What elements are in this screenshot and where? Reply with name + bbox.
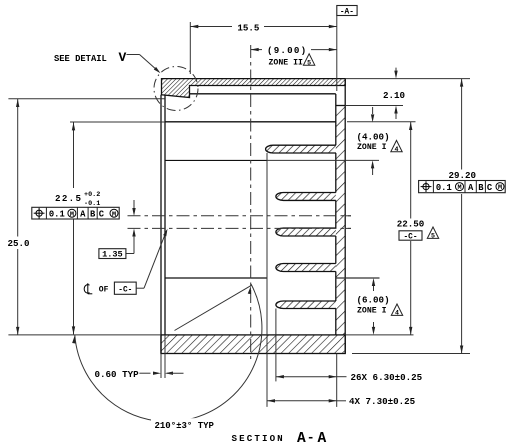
svg-text:(4.00): (4.00): [357, 131, 390, 142]
svg-text:(6.00): (6.00): [357, 295, 390, 306]
svg-text:5: 5: [431, 233, 435, 240]
svg-text:-: -: [307, 430, 315, 445]
svg-text:2.10: 2.10: [383, 90, 405, 101]
svg-text:B: B: [90, 210, 96, 220]
svg-text:C: C: [487, 183, 493, 193]
svg-text:ZONE I: ZONE I: [357, 306, 387, 315]
svg-text:OF: OF: [99, 286, 109, 295]
svg-text:-C-: -C-: [403, 233, 417, 241]
svg-text:22.5: 22.5: [55, 193, 82, 204]
svg-text:+0.2: +0.2: [84, 191, 100, 199]
svg-text:4X 7.30±0.25: 4X 7.30±0.25: [349, 396, 416, 407]
svg-text:1.35: 1.35: [102, 249, 123, 259]
svg-text:5: 5: [307, 59, 311, 66]
svg-text:15.5: 15.5: [237, 22, 260, 33]
svg-text:C: C: [99, 210, 105, 220]
svg-text:B: B: [478, 183, 484, 193]
svg-text:ZONE I: ZONE I: [357, 143, 387, 152]
svg-text:ZONE II: ZONE II: [269, 58, 303, 67]
svg-text:SEE DETAIL: SEE DETAIL: [54, 54, 107, 64]
svg-text:SECTION: SECTION: [232, 433, 285, 444]
svg-text:M: M: [457, 184, 461, 192]
svg-text:-C-: -C-: [118, 287, 132, 295]
svg-text:A: A: [80, 210, 86, 220]
svg-text:A: A: [468, 183, 474, 193]
svg-text:4: 4: [395, 310, 399, 317]
svg-text:A: A: [297, 431, 306, 447]
svg-text:26X 6.30±0.25: 26X 6.30±0.25: [351, 372, 423, 383]
svg-text:25.0: 25.0: [8, 238, 30, 249]
svg-text:(9.00): (9.00): [267, 45, 307, 56]
svg-text:0.60 TYP: 0.60 TYP: [95, 369, 140, 380]
svg-text:0.1: 0.1: [436, 183, 452, 193]
svg-text:-A-: -A-: [340, 9, 354, 17]
svg-text:4: 4: [395, 146, 399, 153]
svg-text:210°±3° TYP: 210°±3° TYP: [155, 421, 215, 431]
svg-text:M: M: [498, 184, 502, 192]
svg-text:M: M: [70, 211, 74, 219]
svg-text:M: M: [112, 211, 116, 219]
svg-text:29.20: 29.20: [449, 170, 477, 181]
svg-text:-0.1: -0.1: [84, 200, 100, 208]
svg-text:A: A: [318, 431, 327, 447]
svg-text:V: V: [119, 50, 127, 65]
svg-text:22.50: 22.50: [397, 219, 425, 230]
svg-text:0.1: 0.1: [49, 210, 65, 220]
